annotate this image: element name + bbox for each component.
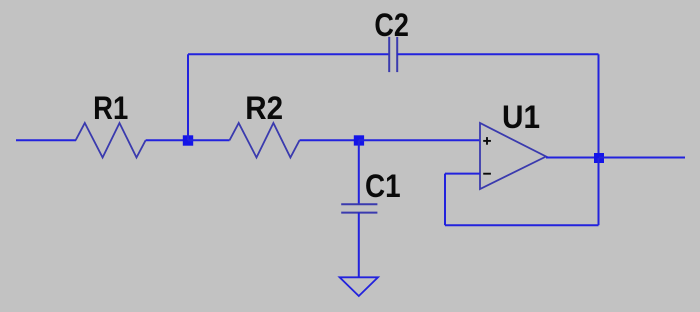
wire feedback top left xyxy=(188,53,389,55)
node B junction xyxy=(354,135,364,145)
svg-text:C2: C2 xyxy=(374,6,409,43)
capacitor C2 xyxy=(374,6,409,72)
node A junction xyxy=(183,135,193,145)
op-amp U1 xyxy=(480,98,546,189)
wire feedback loop right xyxy=(598,158,600,225)
wire feedback loop bottom xyxy=(445,224,599,226)
wire node A up to feedback xyxy=(187,54,189,140)
output wire xyxy=(599,157,685,159)
wire feedback down to output node xyxy=(598,54,600,158)
wire C1 to ground xyxy=(358,213,360,278)
capacitor C1 xyxy=(341,167,400,213)
wire node B to op-amp + input xyxy=(359,139,480,141)
resistor R2 xyxy=(230,89,300,158)
wire - input of op-amp xyxy=(445,173,480,175)
input wire xyxy=(16,139,76,141)
svg-text:U1: U1 xyxy=(502,98,540,135)
svg-text:C1: C1 xyxy=(365,167,401,204)
output node junction xyxy=(594,153,604,163)
svg-text:R2: R2 xyxy=(245,89,283,126)
wire R1 to node A xyxy=(146,139,188,141)
wire node B down to C1 xyxy=(358,140,360,204)
wire op-amp output xyxy=(546,157,599,159)
resistor R1 xyxy=(76,89,146,158)
svg-text:R1: R1 xyxy=(93,89,128,126)
wire feedback top right xyxy=(397,53,598,55)
wire R2 to node B xyxy=(300,139,360,141)
wire node A to R2 xyxy=(188,139,230,141)
ground xyxy=(340,277,378,296)
wire feedback loop left xyxy=(444,174,446,226)
